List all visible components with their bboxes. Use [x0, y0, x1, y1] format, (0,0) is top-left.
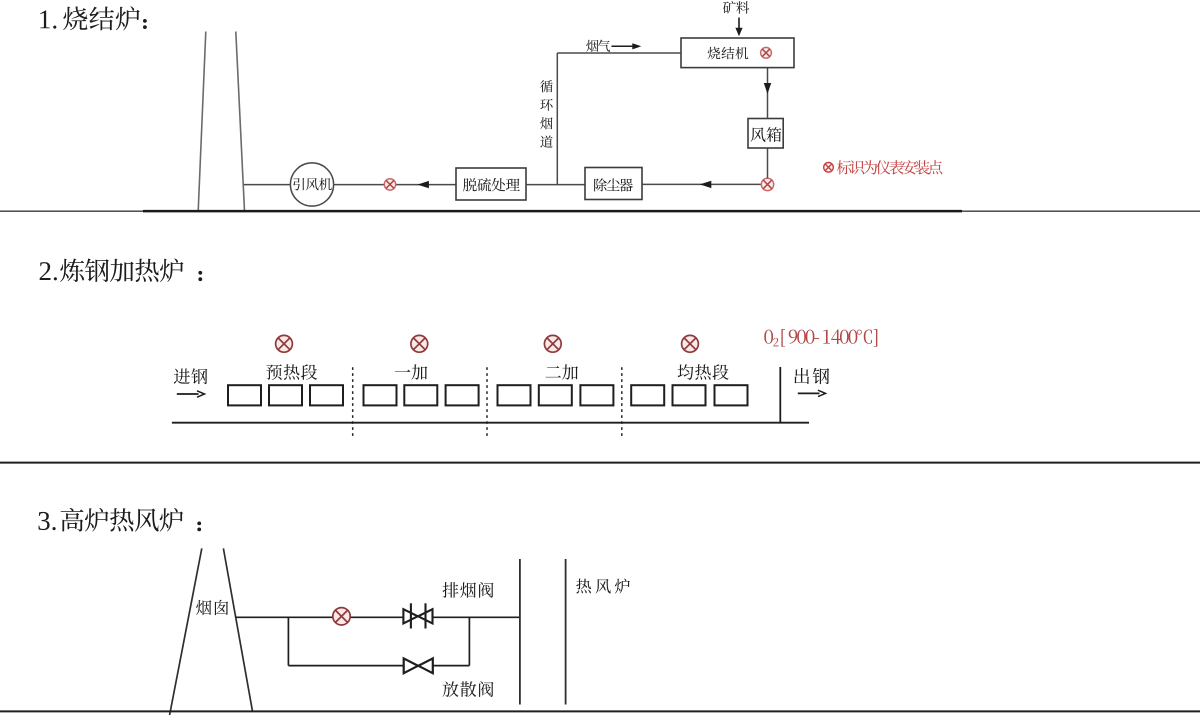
label 烧结机: [708, 47, 749, 59]
label 除尘器: [594, 178, 633, 191]
instrument point over 一加: [411, 335, 428, 352]
wire: sinter machine down to windbox: [767, 68, 769, 119]
bypass bottom run (right of valve): [433, 665, 470, 667]
label 烟囱 chimney: [196, 600, 228, 615]
instrument point X3 inside sinter machine: [761, 47, 772, 58]
label 排烟阀: [442, 582, 493, 598]
chimney 1 left wall: [198, 32, 206, 212]
bypass right riser: [468, 617, 470, 665]
instrument point over 预热段: [276, 335, 293, 352]
arrow: flue gas direction: [612, 45, 634, 47]
label 一加: [395, 364, 427, 380]
recirculation flue vertical duct: [556, 53, 558, 185]
furnace slab blocks row: [228, 385, 261, 405]
release valve 放散阀 (bowtie): [404, 658, 433, 673]
chimney 1 right wall: [236, 32, 245, 212]
hearth baseline: [172, 422, 809, 424]
label 烟气 flue gas: [586, 40, 610, 52]
arrow: steel out: [798, 392, 820, 394]
box 风箱: [748, 119, 783, 149]
title: 1. 烧结炉: [40, 6, 147, 30]
label 热风炉: [576, 578, 630, 593]
label 脱硫处理: [463, 178, 520, 192]
fan circle 引风机: [290, 163, 333, 206]
red annotation O2[900-1400C]: [764, 329, 877, 347]
bypass bottom run (left of valve): [288, 665, 403, 667]
zone divider dashed 2: [486, 367, 488, 437]
chimney 3 right wall: [223, 548, 252, 711]
hot blast stove wall 2: [565, 559, 567, 705]
wire: desulfurization to dust remover: [526, 184, 585, 186]
flow arrow (down) on that wire: [764, 83, 771, 94]
hot blast stove wall 1: [519, 559, 521, 705]
bypass left drop: [287, 617, 289, 665]
zone divider dashed 3: [621, 367, 623, 437]
ground line 1 thick part: [143, 210, 962, 213]
label 矿料 ore feed: [723, 1, 749, 14]
chimney 3 left wall: [170, 548, 202, 715]
instrument point over 均热段: [682, 335, 699, 352]
furnace exit wall: [779, 367, 781, 424]
title: 2. 炼钢加热炉: [40, 258, 203, 282]
arrow: ore feed into sinter machine: [738, 18, 740, 29]
box 除尘器: [585, 168, 642, 200]
main flue line to stove (left of valve): [236, 616, 404, 618]
flow arrow (leftwards) near dust remover: [700, 181, 712, 188]
main flue line to stove (right of valve): [433, 616, 520, 618]
label 出钢 steel out: [794, 368, 829, 384]
box 烧结机: [681, 38, 794, 68]
flow arrow (leftwards) on wire: [417, 181, 429, 188]
wire: windbox down to instrument point: [767, 148, 769, 178]
label 二加: [546, 364, 578, 380]
instrument point X1 on wire: [384, 179, 395, 190]
label 预热段: [266, 364, 317, 380]
label 均热段: [678, 364, 729, 380]
recirculation flue top run to sinter machine: [557, 52, 681, 54]
instrument point X2 at corner: [761, 178, 773, 190]
section divider / ground line 1 (thin full width): [0, 210, 1200, 212]
label 放散阀: [443, 681, 494, 697]
wire: chimney to fan: [244, 184, 291, 186]
ground line 3: [0, 710, 1200, 712]
smoke exhaust valve 排烟阀 (gate symbol): [403, 603, 432, 628]
label 风箱: [751, 127, 782, 142]
zone divider dashed 1: [352, 367, 354, 437]
wire: fan to desulfurization box: [334, 184, 456, 186]
arrow: steel in: [177, 393, 199, 395]
title: 3. 高炉热风炉: [38, 508, 201, 532]
legend instrument symbol: [824, 163, 834, 173]
label 引风机: [293, 178, 332, 191]
legend text 标识为仪表安装点: [837, 160, 942, 174]
wire: dust remover to windbox corner: [642, 183, 762, 185]
instrument point over 二加: [544, 335, 561, 352]
instrument point on flue: [333, 608, 350, 625]
vertical label 循环烟道: [540, 80, 553, 148]
label 进钢 steel in: [174, 368, 208, 384]
section divider 2: [0, 462, 1200, 464]
box 脱硫处理: [456, 168, 526, 200]
